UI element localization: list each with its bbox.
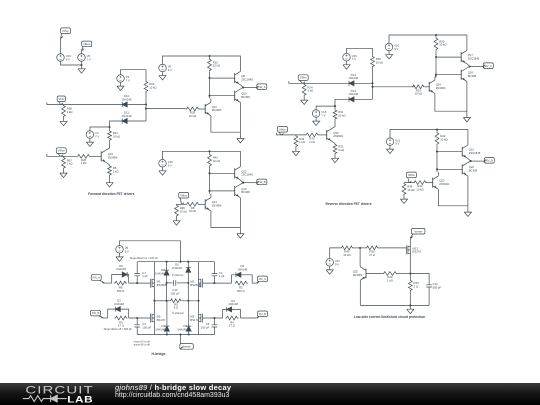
- wire TP-R1 gnd stub: [466, 111, 468, 114]
- svg-text:10 kΩ: 10 kΩ: [440, 137, 447, 141]
- ground below V15: [313, 117, 320, 125]
- wire VMon line rev: [277, 133, 306, 135]
- wire RV_A to loop: [252, 282, 256, 284]
- svg-text:7 V: 7 V: [126, 79, 130, 83]
- svg-text:RV_A: RV_A: [485, 64, 492, 68]
- resistor R43 2ohm: [408, 280, 419, 292]
- svg-text:1N4148: 1N4148: [177, 327, 187, 331]
- mosfet M3 BS170: [190, 314, 202, 323]
- svg-text:VMon: VMon: [180, 193, 188, 197]
- svg-text:2 Ω: 2 Ω: [414, 284, 418, 288]
- svg-text:1N4148: 1N4148: [122, 114, 132, 118]
- svg-text:2N3904: 2N3904: [108, 156, 118, 160]
- wire TP-R1 output: [470, 66, 483, 68]
- svg-text:LAB: LAB: [67, 394, 93, 405]
- wire M2 source to rail: [198, 262, 200, 280]
- ground below V20: [385, 51, 392, 59]
- wire M5 source down: [153, 322, 155, 335]
- resistor R23b 10k: [412, 85, 425, 96]
- net flag FW_A hbridge: [91, 275, 104, 284]
- wire TP-R2 base bus: [436, 145, 438, 172]
- svg-text:2N3904: 2N3904: [439, 182, 449, 186]
- svg-text:1 kΩ: 1 kΩ: [113, 169, 119, 173]
- wire R20 to source node: [398, 273, 411, 275]
- ground below V6: [78, 65, 85, 73]
- wire TP-R2 Q lower collector: [467, 176, 469, 206]
- svg-text:VMon: VMon: [83, 42, 91, 46]
- wire R21 to Q24 collector: [107, 141, 110, 150]
- junction D5 rail: [187, 261, 189, 263]
- svg-text:BS170: BS170: [157, 318, 166, 322]
- wire Q32 collector up: [359, 248, 361, 267]
- ground below R68: [60, 118, 67, 126]
- svg-text:10 kΩ: 10 kΩ: [415, 92, 422, 96]
- junction rail V5 feed: [179, 261, 181, 263]
- wire V17 to R46: [330, 248, 341, 259]
- svg-text:VFw: VFw: [59, 97, 64, 101]
- wire TP-F2 base bus: [209, 167, 211, 194]
- svg-text:9 V: 9 V: [168, 163, 172, 167]
- svg-text:10 kΩ: 10 kΩ: [213, 64, 220, 68]
- junction TP-R2 rail: [436, 129, 438, 131]
- wire motor row right: [182, 300, 199, 302]
- svg-text:10 kΩ: 10 kΩ: [180, 210, 187, 214]
- svg-text:Low-side current limit/short c: Low-side current limit/short circuit pro…: [354, 315, 425, 319]
- wire RV_B to loop: [240, 317, 256, 319]
- wire TP-R1 driver base: [425, 86, 429, 88]
- resistor R5 8ohm motor: [170, 299, 182, 310]
- svg-text:BS250B: BS250B: [190, 283, 200, 287]
- wire TP-R2 rail stub: [436, 130, 438, 132]
- wire TP-R1 upper base: [436, 56, 461, 58]
- voltage source V21: [386, 138, 400, 146]
- wire R26 to Q24 base: [91, 155, 102, 157]
- resistor R33 1k: [333, 144, 344, 155]
- svg-text:9 V: 9 V: [395, 142, 399, 146]
- wire TP-R1 Q upper emitter: [467, 64, 470, 67]
- svg-text:2SC1845: 2SC1845: [469, 151, 481, 155]
- voltage source V20: [385, 43, 399, 51]
- wire TP-F2 Q upper emitter: [240, 180, 243, 183]
- ground below V3: [117, 82, 124, 90]
- svg-text:VPwr: VPwr: [62, 29, 69, 33]
- wire TP-R2 rail: [390, 130, 468, 145]
- resistor R21b 10k: [371, 56, 383, 68]
- junction TP-R1 upper base: [435, 56, 437, 58]
- wire C13 left: [167, 282, 173, 284]
- wire TP-F2 driver emitter: [211, 211, 241, 228]
- resistor R5 1k: [108, 165, 119, 176]
- junction TP-R2 lower base: [436, 168, 438, 170]
- svg-text:1 µF: 1 µF: [219, 274, 225, 278]
- wire TP-F2 driver input: [177, 203, 186, 205]
- wire D7 col bottom: [166, 331, 168, 334]
- junction V4 R21: [108, 126, 110, 128]
- net flag Isense: [180, 344, 194, 350]
- net flag VMon fwd in: [56, 148, 66, 157]
- svg-text:FW_A: FW_A: [92, 276, 100, 280]
- net flag FW_B hbridge: [91, 310, 104, 318]
- net flag VMon fwd drv2: [179, 192, 189, 204]
- junction rev bus D14: [371, 82, 373, 84]
- svg-text:1N4148: 1N4148: [228, 302, 238, 306]
- svg-text:7 V: 7 V: [87, 58, 91, 62]
- svg-text:2N3904: 2N3904: [436, 86, 446, 90]
- ground below R45: [400, 195, 407, 203]
- svg-text:100 pF: 100 pF: [142, 325, 151, 329]
- wire TP-F2 Q lower collector: [239, 198, 241, 228]
- wire C13 right: [177, 282, 188, 284]
- wire gate loop BR: [232, 309, 241, 318]
- junction C3 tap: [136, 317, 138, 319]
- ground below V9: [159, 72, 166, 80]
- svg-text:9 V: 9 V: [66, 58, 70, 62]
- wire TP-F2 lower base: [210, 190, 235, 192]
- wire TP-F1 gnd stub: [239, 132, 241, 135]
- wire TP-R2 Q lower emitter: [468, 161, 471, 163]
- junction TP-F1 lower base: [208, 95, 210, 97]
- wire V5 feed overhead: [120, 241, 181, 262]
- junction D8 row: [166, 300, 168, 302]
- resistor R50 27: [366, 246, 379, 257]
- junction TP-F2 rail: [208, 150, 210, 152]
- svg-text:7 V: 7 V: [352, 57, 356, 61]
- wire M1 drain down: [153, 287, 155, 301]
- svg-text:1 µF: 1 µF: [142, 274, 148, 278]
- junction C13 right: [187, 282, 189, 284]
- svg-text:7 V: 7 V: [321, 114, 325, 118]
- svg-text:1 kΩ: 1 kΩ: [67, 110, 73, 114]
- diode D13 1N4148: [348, 89, 358, 102]
- wire limiter bottom rail: [360, 304, 429, 306]
- svg-text:Target iDrain on = 100 nF: Target iDrain on = 100 nF: [130, 257, 159, 260]
- wire TP-F2 rail: [163, 151, 241, 166]
- wire R60 to node: [145, 93, 147, 122]
- svg-text:1N4148: 1N4148: [155, 271, 165, 275]
- junction TP-R2 output: [470, 160, 472, 162]
- svg-text:2SC1845: 2SC1845: [241, 173, 253, 177]
- net flag FW_B: [256, 179, 267, 185]
- wire Q30 emitter: [332, 142, 335, 144]
- resistor R29 10k pulldown: [175, 204, 187, 217]
- transistor Q11: [205, 102, 222, 115]
- svg-text:H-bridge: H-bridge: [152, 352, 166, 356]
- transistor Q24 2N3904: [101, 150, 118, 163]
- svg-text:2SC1845: 2SC1845: [241, 77, 253, 81]
- wire hbridge bottom rail: [137, 334, 214, 336]
- svg-text:RV_B: RV_B: [259, 312, 266, 316]
- svg-text:27 Ω: 27 Ω: [229, 324, 235, 328]
- wire D13 to bus: [354, 98, 373, 100]
- ground limiter: [407, 305, 414, 313]
- wire D1 to loop right: [120, 309, 128, 318]
- wire C3 bottom: [136, 327, 138, 334]
- wire loop to M1 gate: [129, 282, 151, 284]
- wire TP-R1 rail stub: [435, 35, 437, 37]
- wire TP-R1 rail: [389, 35, 467, 50]
- resistor R8 10k: [186, 202, 200, 213]
- wire M5 drain up: [153, 301, 155, 315]
- svg-text:Isense: Isense: [414, 229, 422, 233]
- wire TP-R1 base bus: [435, 51, 437, 78]
- wire bus out to R28: [146, 108, 186, 110]
- voltage source V17 9V: [326, 259, 340, 267]
- wire D9 col bottom: [188, 331, 190, 334]
- wire D11 anode to R21: [110, 121, 123, 130]
- junction TP-R2 upper base: [436, 151, 438, 153]
- svg-text:BC368: BC368: [468, 74, 477, 78]
- junction C7 tap: [136, 282, 138, 284]
- transistor Q8: [235, 71, 254, 84]
- wire hbridge top rail: [137, 261, 214, 263]
- svg-text:BC368: BC368: [241, 190, 250, 194]
- svg-text:2N3904: 2N3904: [353, 273, 363, 277]
- wire VFwd main line: [47, 103, 122, 105]
- voltage source V9: [159, 64, 172, 72]
- wire C12 branch: [410, 274, 429, 285]
- svg-text:8 Ω: 8 Ω: [174, 306, 178, 310]
- voltage source V4 7V: [86, 131, 99, 139]
- diode D5 1N4148: [172, 263, 191, 273]
- wire C6 bottom: [213, 327, 215, 334]
- svg-text:FW_A: FW_A: [258, 85, 266, 89]
- resistor R68 1k pulldown: [62, 105, 73, 118]
- wire TP-F1 driver base: [200, 108, 206, 110]
- ground below V10: [159, 167, 166, 175]
- svg-text:VRev: VRev: [300, 76, 307, 80]
- net flag VPwr: [61, 28, 71, 38]
- resistor R2 500: [235, 281, 248, 293]
- wire TP-F2 rail stub: [209, 151, 211, 153]
- svg-text:P-channel: P-channel: [172, 274, 184, 277]
- svg-text:10 kΩ: 10 kΩ: [189, 114, 196, 118]
- wire C7 bottom: [136, 276, 138, 283]
- svg-text:100 pF: 100 pF: [201, 325, 210, 329]
- wire TP-F2 output: [243, 182, 256, 184]
- transistor Q21: [462, 145, 481, 158]
- wire D8 col top: [166, 262, 168, 271]
- mosfet M2 BS250: [190, 279, 202, 288]
- net flag RV_A: [483, 63, 494, 69]
- mosfet M13 BS170: [406, 245, 421, 254]
- svg-text:2N3904: 2N3904: [333, 134, 343, 138]
- wire D2 to loop left: [223, 309, 227, 318]
- svg-text:2N3904: 2N3904: [212, 204, 222, 208]
- wire VRev main line: [289, 81, 349, 83]
- wire M3 source down: [198, 322, 200, 335]
- ground below R24: [301, 96, 308, 104]
- wire Q32 emitter down: [359, 280, 361, 305]
- junction V15 R31: [334, 105, 336, 107]
- svg-text:N-channel: N-channel: [172, 312, 184, 315]
- resistor R34 1k pulldown: [294, 135, 305, 148]
- wire TP-R2 Q upper emitter: [468, 158, 471, 161]
- diode D6 1N4148: [116, 264, 127, 277]
- svg-text:1N4148: 1N4148: [155, 327, 165, 331]
- svg-text:1 kΩ: 1 kΩ: [338, 148, 344, 152]
- CircuitLab logo: [22, 383, 106, 405]
- diode D11 1N4148: [122, 111, 132, 124]
- transistor Q22: [462, 163, 477, 176]
- voltage source V5 9V: [116, 246, 129, 254]
- junction bus D12: [145, 103, 147, 105]
- wire TP-F2 upper base: [210, 172, 235, 174]
- transistor Q14: [205, 198, 222, 211]
- transistor Q30 2N3904: [327, 128, 344, 141]
- wire TP-F1 output: [243, 87, 256, 89]
- wire D5 col top: [187, 262, 189, 268]
- wire D11 to bus: [127, 120, 146, 122]
- svg-text:27 Ω: 27 Ω: [369, 253, 375, 257]
- svg-text:1 kΩ: 1 kΩ: [309, 140, 315, 144]
- wire loop to M5 gate: [129, 317, 151, 319]
- net flag RV_B hbridge: [256, 311, 267, 318]
- ground TP-R1: [463, 114, 470, 122]
- svg-text:Isense: Isense: [183, 345, 191, 349]
- svg-text:RV_A: RV_A: [259, 277, 266, 281]
- svg-text:9 V: 9 V: [335, 262, 339, 266]
- svg-text:2N3904: 2N3904: [212, 108, 222, 112]
- svg-text:1 kΩ: 1 kΩ: [81, 161, 87, 165]
- wire C2 bottom: [213, 276, 215, 283]
- svg-text:100 µF: 100 µF: [171, 291, 180, 295]
- resistor R28 10k: [186, 107, 200, 118]
- wire TP-R2 driver emitter: [438, 189, 468, 206]
- transistor Q23: [433, 176, 450, 189]
- wire M2 drain down: [198, 287, 200, 301]
- diode D12 1N4148: [122, 94, 132, 107]
- junction D7 rail: [166, 333, 168, 335]
- wire M13 source down: [409, 253, 411, 280]
- wire M3 drain up: [198, 301, 200, 315]
- ground below V17: [326, 266, 333, 274]
- wire TP-R1 driver collector: [435, 75, 436, 80]
- resistor R20 10k: [434, 37, 446, 51]
- svg-text:9 V: 9 V: [168, 68, 172, 72]
- svg-text:FW_B: FW_B: [258, 180, 266, 184]
- wire TP-F1 driver collector: [210, 99, 212, 103]
- net flag VMon rev in: [278, 127, 288, 136]
- ground below V16: [343, 61, 350, 69]
- net flag RV_B: [484, 158, 495, 164]
- transistor Q17: [461, 50, 480, 63]
- svg-text:VMon: VMon: [279, 127, 287, 131]
- junction D5 row: [187, 300, 189, 302]
- wire V13 V6 bottoms: [61, 61, 82, 65]
- wire TP-F1 lower base: [210, 95, 235, 97]
- mosfet M5 BS170: [150, 314, 165, 323]
- wire TP-F2 gnd stub: [239, 227, 241, 230]
- ground below V4: [86, 138, 93, 146]
- wire R50 to gate: [379, 248, 407, 250]
- svg-text:1 kΩ: 1 kΩ: [307, 89, 313, 93]
- wire TP-R1 Q lower collector: [466, 81, 468, 111]
- svg-text:Forward direction FET drivers: Forward direction FET drivers: [88, 192, 134, 196]
- resistor R60 10k: [144, 81, 156, 93]
- junction motor left: [153, 300, 155, 302]
- transistor Q32 2N3904: [360, 267, 366, 280]
- junction TP-F2 upper base: [208, 172, 210, 174]
- wire TP-R1 driver emitter: [435, 94, 467, 112]
- ground below V5: [116, 253, 123, 261]
- wire isense to M13 drain: [409, 238, 411, 247]
- junction isense tap: [179, 333, 181, 335]
- wire TP-R2 upper base: [437, 151, 462, 153]
- net flag RV_A hbridge: [256, 276, 267, 283]
- resistor R4 27: [225, 316, 238, 328]
- voltage source V10: [159, 160, 173, 168]
- footer text: [115, 384, 231, 400]
- svg-text:9 V: 9 V: [394, 47, 398, 51]
- ground below R34: [292, 148, 299, 156]
- capacitor C13 100uF: [174, 280, 176, 286]
- resistor R21 10k: [108, 130, 120, 141]
- svg-text:BC368: BC368: [469, 169, 478, 173]
- svg-text:7 V: 7 V: [95, 135, 99, 139]
- wire D9 col top: [188, 301, 190, 326]
- wire TP-F1 upper base: [210, 77, 235, 79]
- wire TP-F1 base bus: [209, 72, 211, 99]
- junction TP-F1 upper base: [208, 77, 210, 79]
- wire TP-F2 driver collector: [210, 194, 212, 198]
- resistor R20b 1k: [382, 272, 397, 283]
- wire VMon to V6: [81, 50, 83, 53]
- resistor R26 1k: [77, 154, 91, 165]
- svg-text:1 kΩ: 1 kΩ: [67, 162, 73, 166]
- wire M2 gate to loop: [203, 282, 232, 284]
- resistor R45 10k pulldown: [402, 183, 414, 196]
- wire isense down: [180, 335, 182, 349]
- svg-text:10 kΩ: 10 kΩ: [113, 135, 120, 139]
- resistor R3 27: [114, 316, 127, 328]
- transistor Q13: [235, 184, 250, 197]
- junction TP-F1 output: [242, 86, 244, 88]
- wire TP-F1 rail: [163, 56, 241, 71]
- junction C6 tap: [213, 317, 215, 319]
- wire TP-R2 lower base: [437, 168, 462, 170]
- transistor Q10: [235, 89, 250, 102]
- diode D14 1N4148: [348, 73, 358, 86]
- svg-text:RV_B: RV_B: [486, 158, 493, 162]
- ground below R33: [331, 155, 338, 163]
- junction TP-R1 output: [469, 65, 471, 67]
- net flag VMon: [82, 41, 92, 51]
- resistor R6 500: [114, 281, 127, 293]
- capacitor C3 100pF: [134, 322, 151, 329]
- svg-text:Reverse direction FET drivers: Reverse direction FET drivers: [325, 202, 371, 206]
- wire gate loop BL: [108, 309, 116, 318]
- diode D7 1N4148: [155, 324, 169, 331]
- svg-text:10 kΩ: 10 kΩ: [439, 43, 446, 47]
- svg-text:10 kΩ: 10 kΩ: [376, 60, 383, 64]
- capacitor C12 500pF: [426, 282, 441, 289]
- wire D7 col top: [166, 301, 168, 326]
- svg-text:BS250B: BS250B: [157, 283, 167, 287]
- svg-text:1N4148: 1N4148: [122, 97, 132, 101]
- wire D8 col bottom: [166, 275, 168, 301]
- junction TP-R1 rail: [435, 34, 437, 36]
- junction motor right: [197, 300, 199, 302]
- diode D2 1N4148: [227, 299, 239, 312]
- wire VMon line fwd: [47, 154, 77, 156]
- svg-text:500 pF: 500 pF: [433, 285, 442, 289]
- wire R21b to bus: [372, 68, 374, 100]
- resistor R44 10k: [413, 181, 427, 192]
- wire R46 to R50: [354, 247, 366, 249]
- resistor R46 10k: [340, 246, 353, 257]
- svg-text:500 Ω: 500 Ω: [117, 289, 125, 293]
- svg-text:1N4148: 1N4148: [172, 266, 182, 270]
